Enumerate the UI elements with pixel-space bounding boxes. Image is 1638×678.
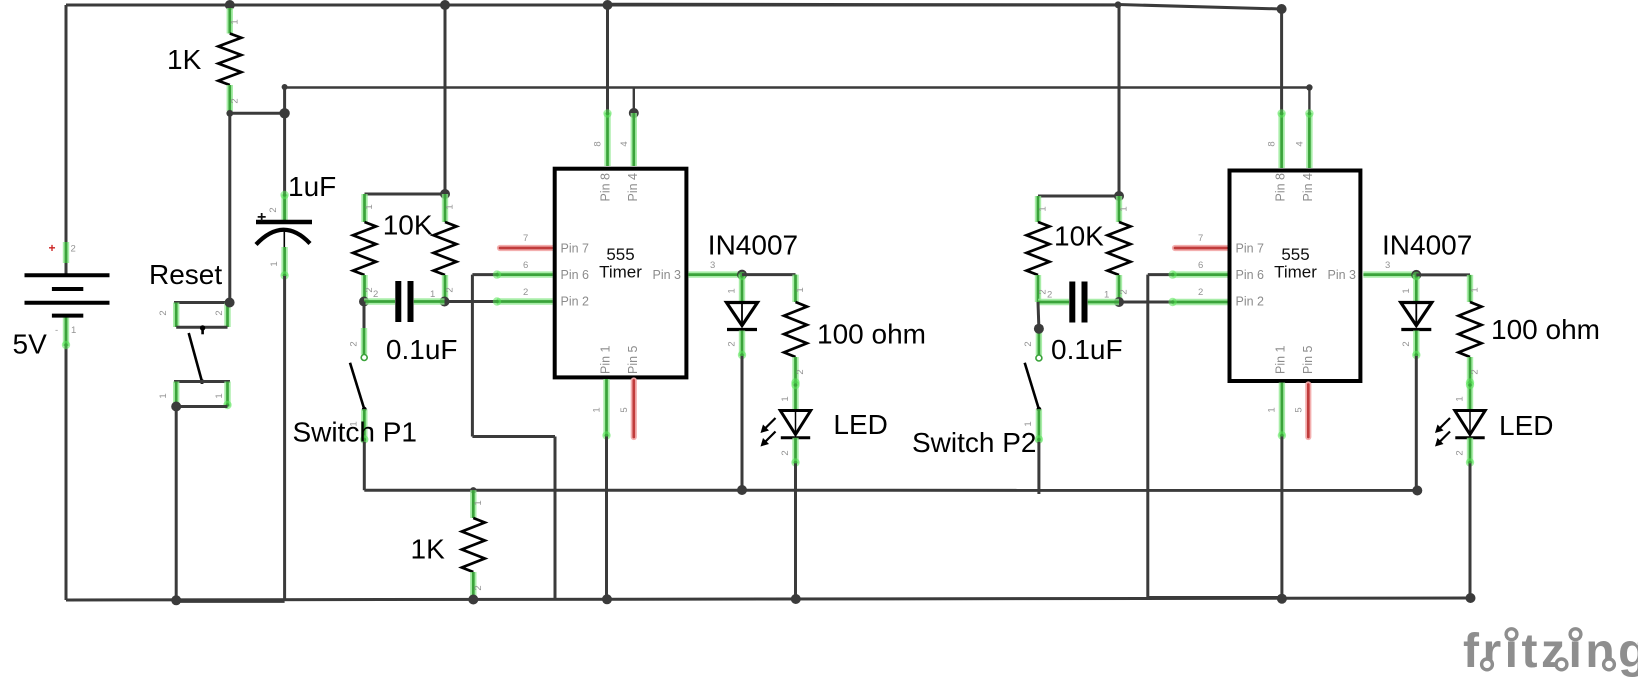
wire reset pin1 to ground rail	[175, 407, 178, 601]
svg-text:2: 2	[1023, 341, 1034, 346]
LED D4 symbol	[1435, 411, 1485, 447]
svg-text:1: 1	[269, 261, 280, 266]
resistor R5 100 ohm	[784, 275, 807, 387]
resistor R1 1K (top left)	[218, 8, 241, 111]
wire ground rail overlap left	[176, 601, 285, 603]
svg-text:Pin 4: Pin 4	[1301, 173, 1315, 202]
wire U1 pin6 jog down and around	[472, 275, 555, 600]
svg-text:Pin 7: Pin 7	[561, 242, 590, 256]
wire U1 pin8 from top rail	[606, 5, 609, 113]
svg-text:Switch P2: Switch P2	[912, 427, 1037, 458]
svg-text:2: 2	[1198, 287, 1203, 298]
wire U1 pin5 stub red	[631, 381, 637, 438]
svg-text:1: 1	[1023, 421, 1034, 426]
svg-text:10K: 10K	[383, 210, 433, 241]
LED D2 cathode lead	[791, 438, 799, 467]
node junction D2 / ground rail	[791, 594, 801, 604]
svg-text:1: 1	[727, 288, 738, 293]
svg-text:Pin 4: Pin 4	[626, 173, 640, 202]
capacitor C1 1uF polarized	[256, 222, 312, 247]
wire bottom ground rail	[66, 598, 1472, 600]
wire battery negative to ground rail	[65, 314, 68, 600]
svg-text:2: 2	[1119, 289, 1130, 294]
diode D1 IN4007 leads	[738, 272, 746, 302]
svg-text:4: 4	[619, 141, 630, 146]
svg-text:2: 2	[373, 289, 378, 300]
svg-text:1: 1	[158, 393, 169, 398]
svg-text:Pin 3: Pin 3	[1328, 268, 1357, 282]
svg-text:5: 5	[1294, 407, 1305, 412]
node junction C1 top	[279, 108, 289, 118]
svg-text:2: 2	[780, 450, 791, 455]
wire U1 pin2 lead	[445, 300, 498, 303]
svg-text:1K: 1K	[411, 534, 446, 565]
resistor R4 10K (right leg)	[434, 194, 457, 302]
node junction U1 pin1 / ground rail	[602, 594, 612, 604]
svg-text:1: 1	[1401, 288, 1412, 293]
svg-text:2: 2	[1401, 341, 1412, 346]
svg-text:Pin 8: Pin 8	[1274, 173, 1288, 202]
wire U1 pin3 lead	[688, 271, 742, 277]
wire D4 cathode to ground rail	[1469, 463, 1472, 598]
svg-text:2: 2	[1470, 369, 1481, 374]
wire top rail to R3 R4 node	[444, 5, 447, 194]
svg-text:2: 2	[158, 310, 169, 315]
svg-text:LED: LED	[833, 409, 887, 440]
svg-text:Timer: Timer	[1274, 263, 1317, 282]
node junction R1 pin2	[226, 110, 233, 117]
svg-text:Pin 7: Pin 7	[1236, 242, 1265, 256]
IC U1 555 timer body	[555, 169, 687, 378]
wire R3 top to R4 top	[365, 193, 446, 196]
node junction top rail / U1 pin8	[603, 0, 613, 10]
node junction reset bottom left	[171, 402, 181, 412]
wire U1 pin1 to ground rail	[602, 379, 610, 440]
fritzing watermark logo	[1463, 625, 1638, 678]
capacitor C3 0.1uF	[1038, 282, 1119, 323]
svg-text:Pin 1: Pin 1	[1274, 345, 1288, 374]
wire U1 pin7 stub red	[500, 245, 552, 251]
svg-text:555: 555	[606, 245, 634, 264]
wire U2 pin4 riser	[1308, 88, 1310, 114]
svg-text:Pin 5: Pin 5	[1301, 345, 1315, 374]
svg-text:Timer: Timer	[599, 263, 642, 282]
wire mid rail (switch bus)	[364, 489, 1417, 492]
svg-text:1: 1	[71, 325, 76, 336]
svg-text:1K: 1K	[167, 44, 202, 75]
svg-text:2: 2	[1455, 450, 1466, 455]
node junction R4/C2/pin2 right	[440, 297, 450, 307]
svg-text:1: 1	[1267, 407, 1278, 412]
wire D1 cathode to mid rail	[741, 356, 744, 490]
svg-text:-: -	[55, 325, 58, 336]
svg-text:Pin 2: Pin 2	[1236, 295, 1265, 309]
svg-text:10K: 10K	[1054, 220, 1104, 251]
svg-text:1: 1	[592, 407, 603, 412]
wire pin3 node to R5	[742, 273, 796, 276]
switch S1 Reset pushbutton	[174, 303, 232, 410]
svg-text:Pin 2: Pin 2	[561, 295, 590, 309]
svg-text:1: 1	[1119, 206, 1130, 211]
resistor R3 10K (left of U1)	[353, 194, 376, 302]
node junction R2 / ground rail	[468, 595, 478, 605]
svg-text:555: 555	[1281, 245, 1309, 264]
wire stub rail B riser	[283, 88, 286, 114]
svg-text:6: 6	[1198, 260, 1203, 271]
wire R6 top to R7 top	[1038, 195, 1119, 198]
svg-text:2: 2	[445, 287, 456, 292]
node rail B left end	[282, 84, 288, 90]
svg-text:1: 1	[473, 500, 484, 505]
wire top rail to second R pair	[1118, 5, 1121, 196]
wire U2 pin6 jog down	[1148, 275, 1173, 599]
svg-text:2: 2	[230, 98, 241, 103]
node junction top rail / R1	[225, 0, 235, 10]
wire U2 pin3 lead	[1363, 271, 1416, 277]
svg-text:2: 2	[214, 310, 225, 315]
diode D3 IN4007 symbol	[1401, 303, 1432, 326]
D3 cathode lead	[1412, 331, 1420, 360]
svg-text:Pin 5: Pin 5	[626, 345, 640, 374]
svg-text:4: 4	[1295, 141, 1306, 146]
svg-text:Pin 1: Pin 1	[599, 345, 613, 374]
diode D1 IN4007 symbol	[727, 303, 758, 326]
wire U1 pin4 riser to rail B	[633, 88, 635, 114]
svg-text:IN4007: IN4007	[708, 230, 798, 261]
wire D3 cathode to mid rail	[1415, 356, 1418, 491]
wire U2 pin2 lead	[1119, 301, 1173, 304]
resistor R8 100 ohm	[1459, 275, 1482, 387]
wire S3 to mid rail	[1037, 442, 1040, 494]
node junction D3 / mid rail end	[1412, 486, 1422, 496]
node junction R7 top	[1114, 191, 1124, 201]
svg-text:100 ohm: 100 ohm	[1491, 314, 1600, 345]
svg-text:100 ohm: 100 ohm	[817, 318, 926, 349]
resistor R6 10K (left of U2)	[1027, 196, 1050, 302]
wire top rail sloped segment to U2 pin8	[1118, 5, 1282, 10]
svg-text:Pin 3: Pin 3	[653, 268, 682, 282]
svg-text:1: 1	[230, 19, 241, 24]
resistor R7 10K (right leg)	[1108, 196, 1131, 302]
svg-text:5V: 5V	[13, 329, 48, 360]
wire U2 pin5 stub red	[1305, 385, 1311, 438]
wire S2 to mid rail	[363, 442, 366, 491]
svg-text:+: +	[48, 241, 55, 255]
svg-text:5: 5	[619, 407, 630, 412]
svg-text:1uF: 1uF	[288, 171, 336, 202]
svg-text:2: 2	[473, 585, 484, 590]
LED D4 anode lead	[1466, 381, 1474, 410]
LED D4 cathode lead	[1466, 438, 1474, 467]
svg-text:0.1uF: 0.1uF	[1051, 334, 1123, 365]
wire R1 junction down to reset switch	[228, 113, 231, 302]
svg-text:+: +	[257, 209, 266, 226]
wire mid distribution rail B to pin4s	[285, 86, 1310, 88]
svg-text:1: 1	[1104, 290, 1109, 301]
node junction top rail / R3 R4 feed	[440, 0, 450, 10]
node junction pin3 / D1 / R5	[737, 270, 747, 280]
wire pin3 node to R8	[1416, 273, 1470, 276]
node bend top rail x1118	[1115, 1, 1122, 8]
switch S2 P1 pushbutton	[350, 302, 368, 444]
wire U2 pin6 green lead	[1168, 270, 1227, 278]
node rail B right end	[1306, 84, 1312, 90]
D1 cathode lead	[738, 331, 746, 360]
resistor R2 1K (bottom)	[462, 490, 485, 599]
svg-text:0.1uF: 0.1uF	[386, 334, 458, 365]
svg-text:7: 7	[1198, 233, 1203, 244]
node junction R4 top	[440, 189, 450, 199]
svg-text:2: 2	[795, 369, 806, 374]
wire ground rail overlap right	[1148, 596, 1282, 598]
svg-text:LED: LED	[1499, 410, 1553, 441]
svg-text:1: 1	[364, 204, 375, 209]
node junction D4 / ground rail end	[1466, 593, 1476, 603]
wire top rail overlap segment	[607, 3, 1118, 6]
wire D2 cathode to ground rail	[794, 463, 797, 599]
diode D3 IN4007 leads	[1412, 272, 1420, 302]
node junction D1 / mid rail	[737, 485, 747, 495]
node junction U1 pin4 bend	[629, 108, 639, 118]
LED D2 symbol	[761, 411, 811, 447]
svg-text:1: 1	[795, 287, 806, 292]
svg-text:Pin 8: Pin 8	[599, 173, 613, 202]
svg-text:7: 7	[523, 233, 528, 244]
wire top power rail	[66, 4, 1118, 7]
node bend R2 top on mid rail	[470, 487, 476, 493]
wire U2 pin4 green lead	[1305, 109, 1313, 168]
node junction R3/C2/S2 left	[359, 297, 369, 307]
svg-text:Pin 6: Pin 6	[1236, 268, 1265, 282]
switch S3 P2 pushbutton	[1025, 302, 1043, 444]
LED D2 anode lead	[791, 381, 799, 410]
svg-text:2: 2	[1047, 290, 1052, 301]
wire U2 pin7 stub red	[1175, 245, 1227, 251]
svg-text:8: 8	[1267, 141, 1278, 146]
svg-text:1: 1	[780, 396, 791, 401]
node junction top rail / U2 pin8	[1277, 4, 1287, 14]
wire R1 pin2 to C1 column	[230, 112, 285, 115]
wire U1 pin6 green lead	[493, 270, 553, 278]
svg-text:1: 1	[1470, 287, 1481, 292]
wire C1 top lead	[283, 113, 286, 222]
node junction S3 top	[1034, 324, 1044, 334]
wire U1 pin4 green lead	[631, 113, 637, 166]
node junction R7/C3/pin2 right	[1114, 297, 1124, 307]
svg-text:Pin 6: Pin 6	[561, 268, 590, 282]
svg-text:2: 2	[349, 341, 360, 346]
wire C1 bottom lead to ground rail	[280, 247, 288, 280]
battery BAT1 5V	[25, 275, 110, 315]
wire U2 pin8 from top rail	[1280, 9, 1283, 113]
node junction reset top right	[225, 298, 235, 308]
IC U2 555 timer body	[1230, 171, 1361, 382]
svg-text:2: 2	[523, 287, 528, 298]
svg-text:Switch P1: Switch P1	[293, 417, 418, 448]
svg-text:1: 1	[430, 289, 435, 300]
svg-text:3: 3	[1385, 260, 1390, 271]
svg-text:6: 6	[523, 260, 528, 271]
svg-text:2: 2	[268, 207, 279, 212]
svg-text:Reset: Reset	[149, 259, 222, 290]
wire battery positive to top rail	[65, 5, 68, 275]
svg-text:IN4007: IN4007	[1382, 230, 1472, 261]
capacitor C2 0.1uF	[364, 281, 445, 322]
svg-text:1: 1	[1455, 396, 1466, 401]
svg-text:1: 1	[214, 393, 225, 398]
svg-text:2: 2	[71, 244, 76, 255]
node junction ground rail / reset	[171, 595, 181, 605]
svg-text:8: 8	[593, 141, 604, 146]
svg-text:2: 2	[727, 341, 738, 346]
svg-text:1: 1	[445, 204, 456, 209]
svg-text:1: 1	[1038, 206, 1049, 211]
svg-text:3: 3	[710, 260, 715, 271]
node junction pin3 / D3 / R8	[1411, 270, 1421, 280]
node junction U2 pin1 / ground rail	[1277, 594, 1287, 604]
wire U2 pin1 to ground rail	[1278, 383, 1286, 440]
